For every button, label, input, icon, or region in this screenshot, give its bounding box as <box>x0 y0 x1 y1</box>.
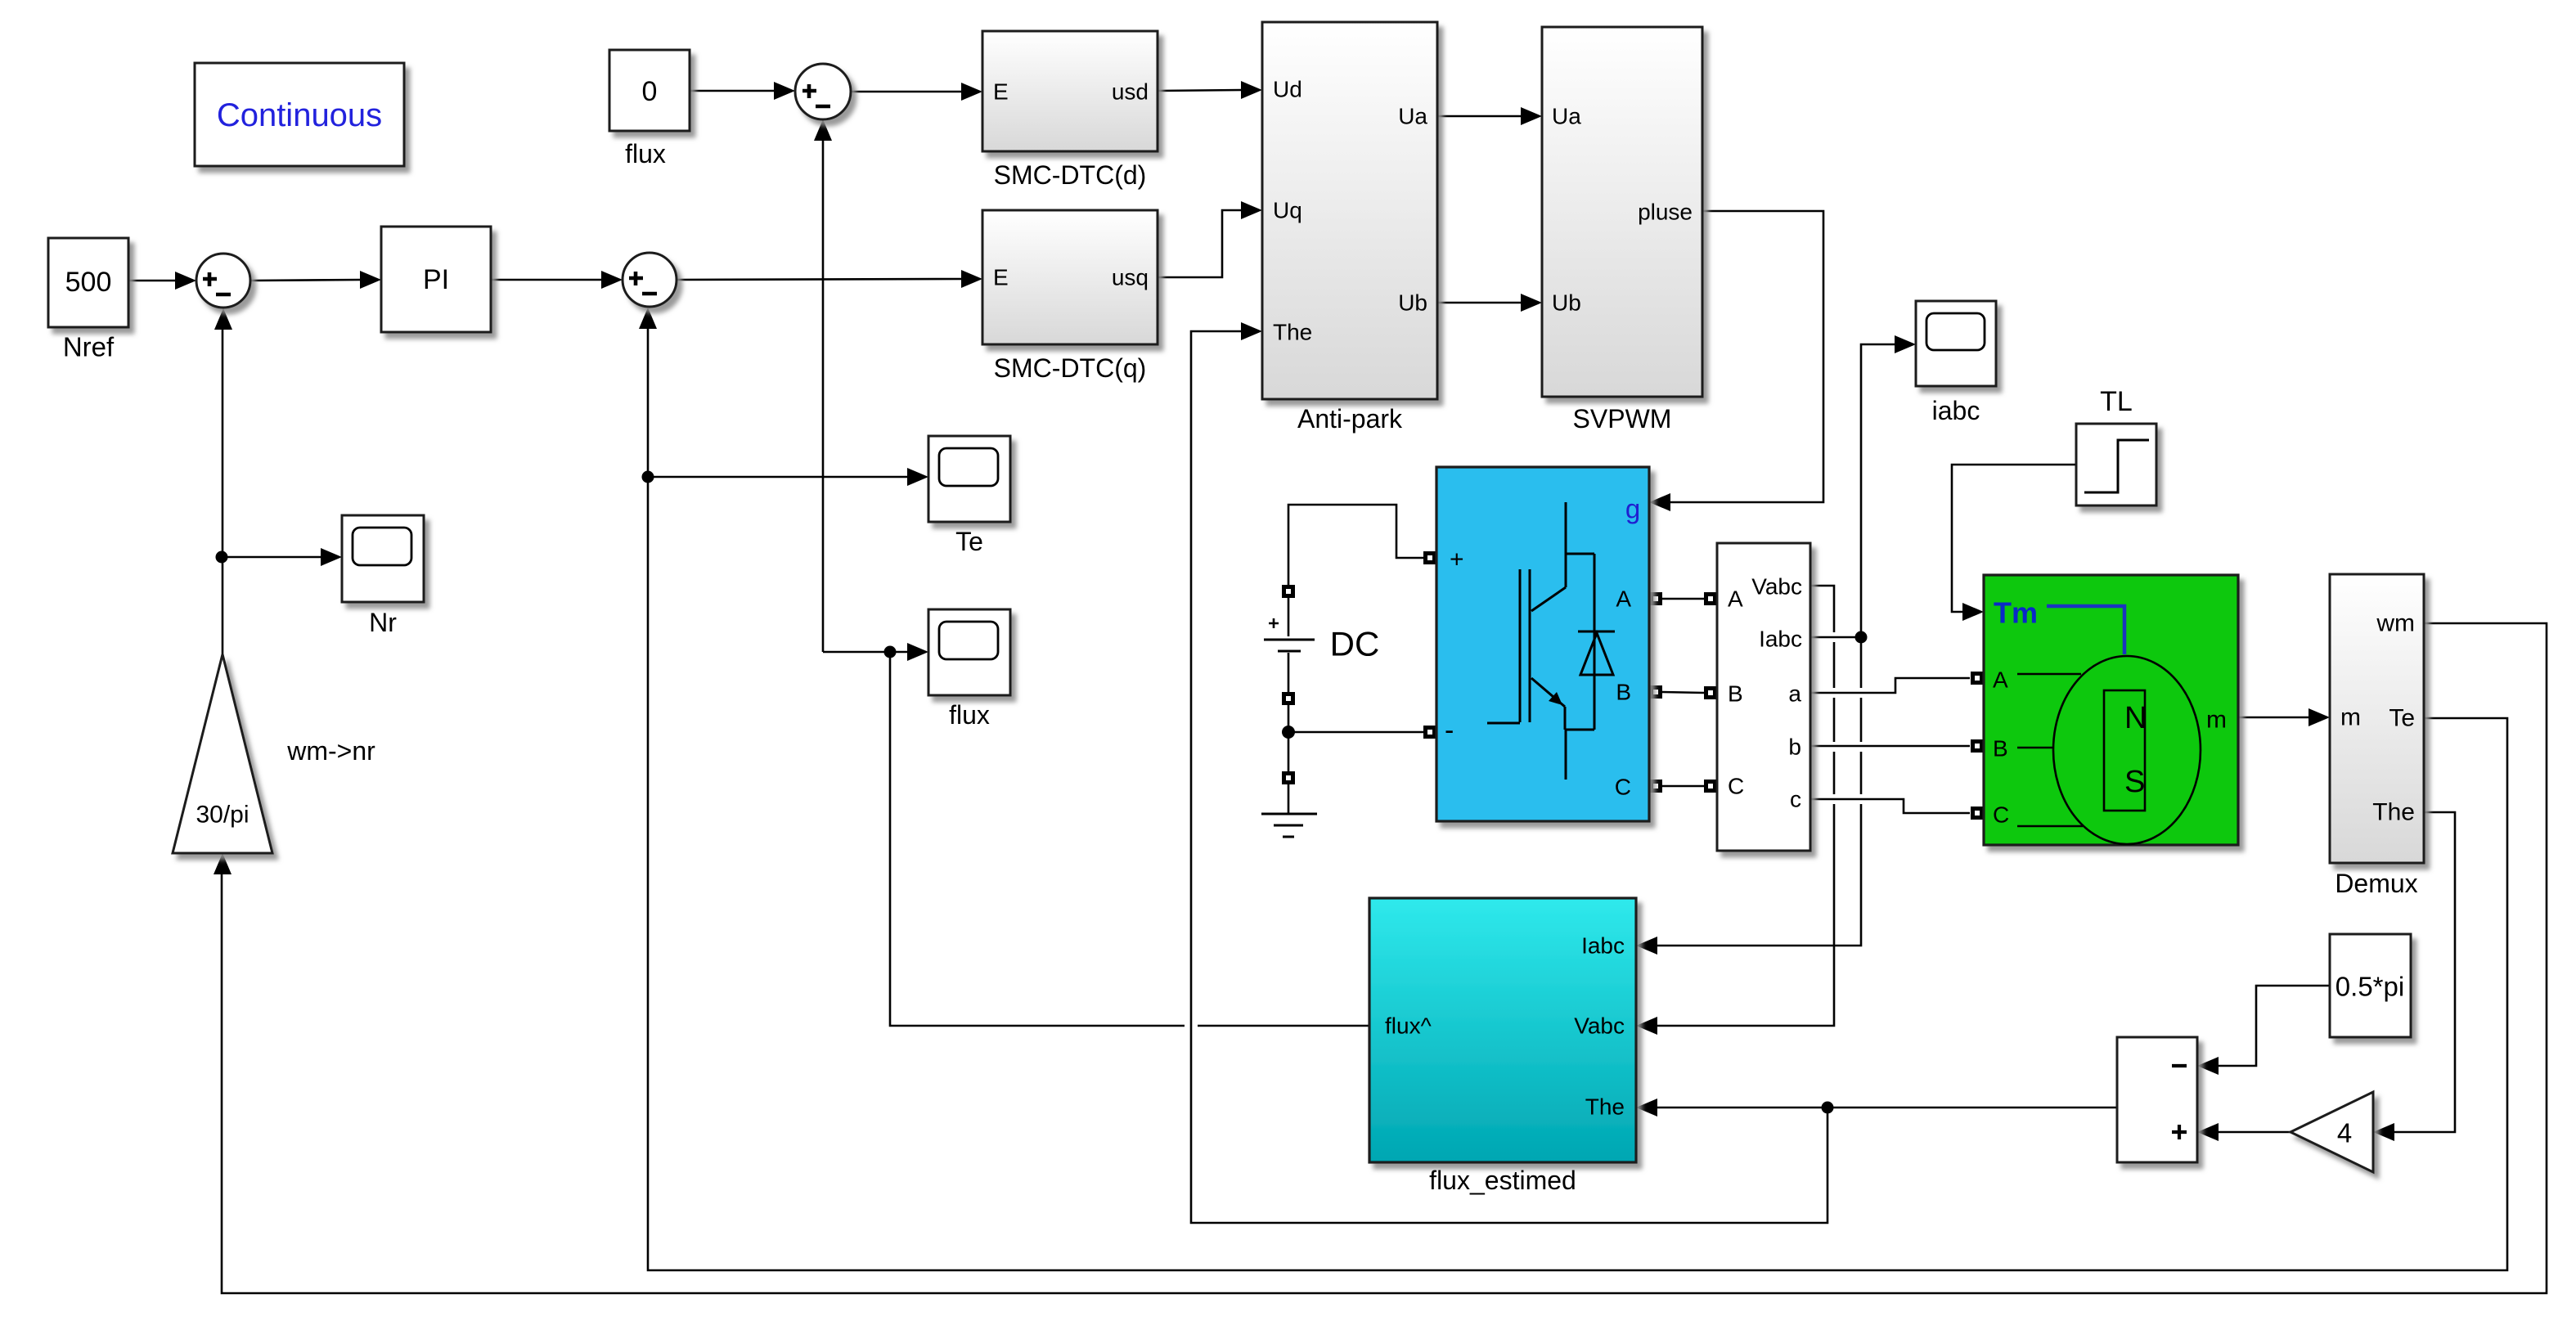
gain 30/pi (wm to nr) <box>173 654 272 853</box>
ground symbol <box>1261 784 1317 837</box>
wire junction to Te scope <box>648 468 928 486</box>
svg-text:Iabc: Iabc <box>1759 627 1802 652</box>
svg-text:m: m <box>2206 707 2227 734</box>
scope Nr <box>342 515 424 637</box>
svg-text:a: a <box>1788 681 1801 707</box>
svg-text:S: S <box>2124 765 2145 799</box>
wire SVPWM pluse down into inverter g input <box>1649 211 1823 511</box>
scope iabc <box>1916 301 1996 425</box>
svg-text:Nr: Nr <box>369 608 397 637</box>
wire 0.5*pi to sum minus input <box>2197 986 2330 1075</box>
block PI controller <box>381 227 491 332</box>
wire sum3 to SMC-DTC(d) E input <box>851 83 982 101</box>
node junction flux^ line <box>884 646 897 658</box>
wire inverter A to measurement A <box>1649 592 1717 605</box>
wire flux_estimed flux^ output left then up to junction (gap where crossing The vertical) <box>890 652 1185 1026</box>
wire junction to Nr scope <box>222 548 342 566</box>
block Demux <box>2330 574 2424 898</box>
svg-text:500: 500 <box>65 267 112 298</box>
svg-text:Vabc: Vabc <box>1751 574 1802 600</box>
svg-text:C: C <box>1993 802 2009 828</box>
svg-text:C: C <box>1728 774 1744 799</box>
block constant 0.5*pi <box>2330 934 2411 1037</box>
wire Nref constant to sum1 <box>128 272 196 290</box>
svg-text:wm: wm <box>2376 610 2415 637</box>
svg-text:-: - <box>1445 715 1454 746</box>
svg-text:+: + <box>1450 546 1464 573</box>
svg-text:flux_estimed: flux_estimed <box>1429 1166 1576 1195</box>
node junction on The line <box>1822 1102 1834 1114</box>
wire sum2 to SMC-DTC(q) E input <box>677 270 982 288</box>
wire battery minus to inverter minus <box>1288 705 1423 732</box>
svg-text:SVPWM: SVPWM <box>1573 404 1672 434</box>
wire Anti-park Ub to SVPWM Ub <box>1437 294 1542 312</box>
wire bottom wm feedback: Demux wm out, right edge down, along bottom, up into 30/pi <box>214 623 2547 1293</box>
gain 4 <box>2291 1092 2373 1172</box>
wire The angle into Anti-park The input <box>1191 322 1827 1223</box>
wire flux^ estimate up into sum3 minus input <box>814 119 832 652</box>
block SVPWM <box>1542 27 1702 434</box>
wire motor m output to Demux <box>2238 708 2330 726</box>
block Anti-park transform <box>1262 22 1437 434</box>
wire DC battery plus to inverter plus <box>1288 505 1423 586</box>
wire sum1 to PI <box>250 271 381 289</box>
svg-text:C: C <box>1615 775 1631 800</box>
port battery minus terminal <box>1282 692 1295 705</box>
svg-text:The: The <box>1585 1094 1625 1120</box>
block SMC-DTC(d) <box>982 31 1158 190</box>
wire measurement Iabc output to junction <box>1810 636 1861 639</box>
svg-text:Ua: Ua <box>1398 104 1427 129</box>
svg-text:The: The <box>1273 320 1312 345</box>
svg-text:pluse: pluse <box>1638 200 1693 225</box>
wire gain 4 out to sum plus input <box>2197 1123 2291 1141</box>
svg-text:Uq: Uq <box>1273 198 1302 223</box>
svg-text:Ub: Ub <box>1552 290 1581 316</box>
svg-text:DC: DC <box>1330 625 1380 663</box>
svg-text:flux: flux <box>625 139 666 168</box>
svg-text:flux^: flux^ <box>1385 1013 1432 1039</box>
node junction Te feedback to Te scope <box>642 471 654 483</box>
block three-phase V-I measurement <box>1717 543 1810 851</box>
sum S3 flux loop <box>795 64 851 119</box>
svg-text:A: A <box>1993 667 2008 693</box>
wire SMC-DTC(q) usq to Anti-park Uq <box>1158 201 1262 277</box>
wire gain 30/pi output up to sum1 minus input <box>214 308 232 654</box>
svg-text:E: E <box>993 265 1009 290</box>
wire flux constant 0 to sum3 <box>690 82 795 100</box>
wire sum block output to flux_estimed The input <box>1636 1099 2117 1117</box>
block PMSM motor <box>1984 575 2238 845</box>
svg-text:iabc: iabc <box>1932 396 1980 425</box>
wire Anti-park Ua to SVPWM Ua <box>1437 107 1542 125</box>
port inverter plus terminal <box>1423 551 1436 564</box>
svg-text:Te: Te <box>2389 705 2415 732</box>
wire inverter C to measurement C <box>1649 780 1717 793</box>
svg-text:TL: TL <box>2100 386 2133 417</box>
svg-text:Tm: Tm <box>1994 596 2038 630</box>
block TL step source <box>2076 386 2156 505</box>
wire inverter B to measurement B <box>1649 685 1717 699</box>
wire junction down to ground <box>1288 732 1290 771</box>
svg-text:b: b <box>1788 735 1801 760</box>
wire flux^ branch to flux scope <box>823 643 928 661</box>
svg-text:B: B <box>1616 680 1631 705</box>
svg-text:Ud: Ud <box>1273 77 1302 102</box>
svg-text:4: 4 <box>2337 1118 2352 1148</box>
svg-text:g: g <box>1625 494 1640 524</box>
wire TL step to motor Tm input <box>1952 465 2076 621</box>
sum S1 speed error <box>196 254 250 308</box>
wire measurement a to motor A <box>1810 672 1984 693</box>
svg-text:usq: usq <box>1112 265 1149 290</box>
node junction Iabc <box>1855 631 1868 644</box>
svg-text:The: The <box>2372 799 2415 826</box>
wire Iabc up to iabc scope <box>1861 335 1916 637</box>
svg-text:E: E <box>993 79 1009 105</box>
svg-text:wm->nr: wm->nr <box>286 736 375 766</box>
port battery plus terminal <box>1282 585 1295 598</box>
block constant flux = 0 <box>609 50 690 168</box>
svg-text:0.5*pi: 0.5*pi <box>2335 972 2404 1002</box>
IGBT and diode icon inside inverter <box>1487 502 1615 780</box>
wire measurement Vabc down to flux_estimed Vabc (gaps at crossings) <box>1636 586 1834 1035</box>
svg-text:Ua: Ua <box>1552 104 1581 129</box>
motor rotor ellipse with N-S magnet <box>2053 656 2201 844</box>
svg-text:Vabc: Vabc <box>1574 1013 1625 1039</box>
wire Iabc down to flux_estimed Iabc (gaps at crossings) <box>1636 637 1861 955</box>
sum S4 angle offset (rectangular) <box>2117 1037 2197 1162</box>
svg-text:Te: Te <box>955 527 983 556</box>
block SMC-DTC(q) <box>982 210 1158 383</box>
svg-text:c: c <box>1790 787 1801 812</box>
svg-text:m: m <box>2340 704 2361 731</box>
svg-text:Demux: Demux <box>2335 869 2417 898</box>
svg-text:Anti-park: Anti-park <box>1297 404 1403 434</box>
svg-text:B: B <box>1993 736 2008 762</box>
wire measurement c to motor C <box>1810 799 1984 820</box>
block flux_estimed <box>1369 898 1636 1195</box>
block Continuous annotation <box>195 63 404 166</box>
svg-text:B: B <box>1728 681 1743 707</box>
svg-text:flux: flux <box>949 700 990 730</box>
battery DC source symbol <box>1264 598 1315 692</box>
wire Te feedback: Demux Te out, down, along bottom, up into sum2 minus input <box>639 308 2507 1270</box>
svg-text:A: A <box>1616 586 1631 612</box>
scope Te <box>928 436 1010 556</box>
wire SMC-DTC(d) usd to Anti-park Ud <box>1158 81 1262 99</box>
wire PI to sum2 <box>491 271 623 289</box>
wire measurement b to motor B <box>1810 739 1984 753</box>
scope flux <box>928 609 1010 730</box>
block IGBT inverter <box>1436 467 1649 821</box>
node junction at battery minus <box>1282 726 1295 739</box>
node junction on nr feedback <box>216 551 228 564</box>
svg-text:Continuous: Continuous <box>217 97 382 133</box>
svg-text:A: A <box>1728 586 1743 612</box>
sum S2 torque loop <box>623 253 677 307</box>
svg-text:Ub: Ub <box>1398 290 1427 316</box>
svg-text:Nref: Nref <box>63 332 115 362</box>
svg-text:0: 0 <box>642 76 658 107</box>
svg-text:30/pi: 30/pi <box>196 802 249 829</box>
svg-text:Iabc: Iabc <box>1581 933 1625 959</box>
svg-text:N: N <box>2124 701 2147 735</box>
port inverter minus terminal <box>1423 726 1436 739</box>
block constant Nref = 500 <box>48 238 128 362</box>
port ground terminal <box>1282 771 1295 784</box>
svg-text:usd: usd <box>1112 79 1149 105</box>
svg-text:SMC-DTC(q): SMC-DTC(q) <box>994 353 1147 383</box>
svg-text:SMC-DTC(d): SMC-DTC(d) <box>994 160 1147 190</box>
wire Demux The out down to gain 4 <box>2373 812 2455 1141</box>
svg-text:PI: PI <box>423 264 449 295</box>
